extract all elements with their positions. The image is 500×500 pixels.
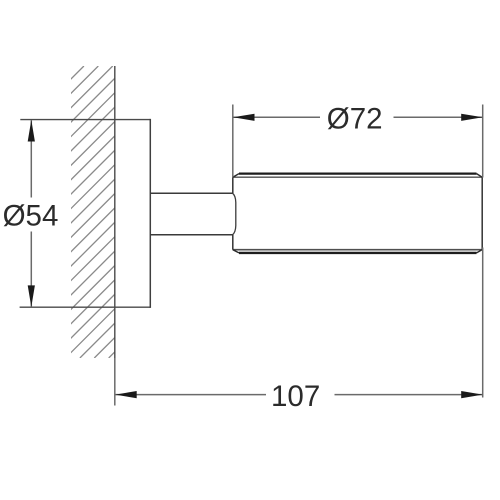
svg-text:Ø54: Ø54 [3,200,59,233]
svg-text:Ø72: Ø72 [327,103,383,136]
svg-text:107: 107 [271,380,320,413]
